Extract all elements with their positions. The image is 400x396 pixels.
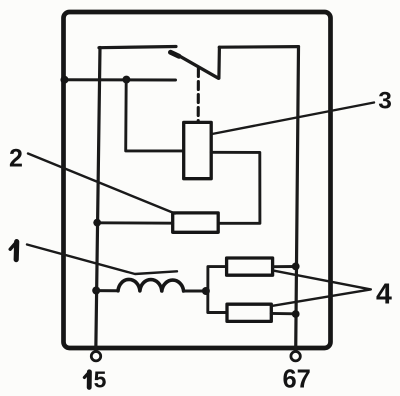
junction dot on housing left border — [61, 76, 69, 84]
leader lines to label 4 — [273, 271, 371, 306]
terminal 67 bead — [291, 352, 300, 361]
leader line to label 3 — [212, 103, 374, 135]
switch fixed contact tick — [171, 52, 180, 56]
wire: switch fixed-contact lead (top-left horizontal) — [99, 47, 176, 48]
wire: inductor to parallel resistor bank — [184, 290, 206, 293]
leader line to label 1 — [27, 245, 177, 275]
leader line to label 2 — [28, 154, 175, 214]
resistor R2 (box) — [173, 213, 219, 232]
svg-text:4: 4 — [376, 278, 392, 310]
resistor R4a (top box) — [227, 258, 273, 275]
wire: blade riser up to top rail — [217, 47, 221, 78]
junction dot on left bus at coil wire — [92, 287, 100, 295]
junction dot on left bus at resistor 2 wire — [93, 219, 101, 227]
svg-text:67: 67 — [283, 366, 311, 394]
wire: left bus to inductor 1 — [96, 289, 118, 292]
wire: top resistor to right bus — [273, 265, 296, 268]
terminal 15 bead — [91, 352, 100, 361]
wire: resistor bank left bus with stubs — [208, 267, 227, 313]
wire: inner top rail to right bus — [219, 45, 298, 49]
relay housing outline — [64, 12, 331, 348]
label 1 — [10, 242, 17, 260]
svg-text:3: 3 — [378, 88, 392, 115]
wire: left bus to resistor 2 — [97, 221, 173, 224]
wire: coil 3 right lead over and down to resistor 2 — [211, 152, 260, 223]
junction dot at resistor bank left — [202, 287, 210, 295]
wire: left bus from switch corner down to terminal 15 — [96, 48, 100, 352]
junction dot right bus lower — [292, 310, 300, 318]
svg-text:2: 2 — [9, 145, 23, 173]
wire: right bus down to terminal 67 — [296, 47, 299, 352]
switch blade S1 — [178, 55, 218, 78]
inductor L1 (three humps) — [118, 279, 184, 291]
terminal label 15 — [84, 372, 89, 388]
wire: upper horizontal from housing to switch area — [62, 78, 176, 81]
wire: bottom resistor to right bus — [271, 312, 295, 315]
junction dot right bus upper — [292, 263, 300, 271]
resistor R4b (bottom box) — [227, 304, 271, 321]
wire: drop from junction A to coil 3 left lead — [126, 80, 184, 151]
dashed mechanical link to armature — [197, 69, 200, 122]
junction dot A on upper wire — [122, 76, 130, 84]
relay winding 3 (vertical box) — [184, 122, 212, 178]
svg-text:5: 5 — [94, 367, 107, 393]
